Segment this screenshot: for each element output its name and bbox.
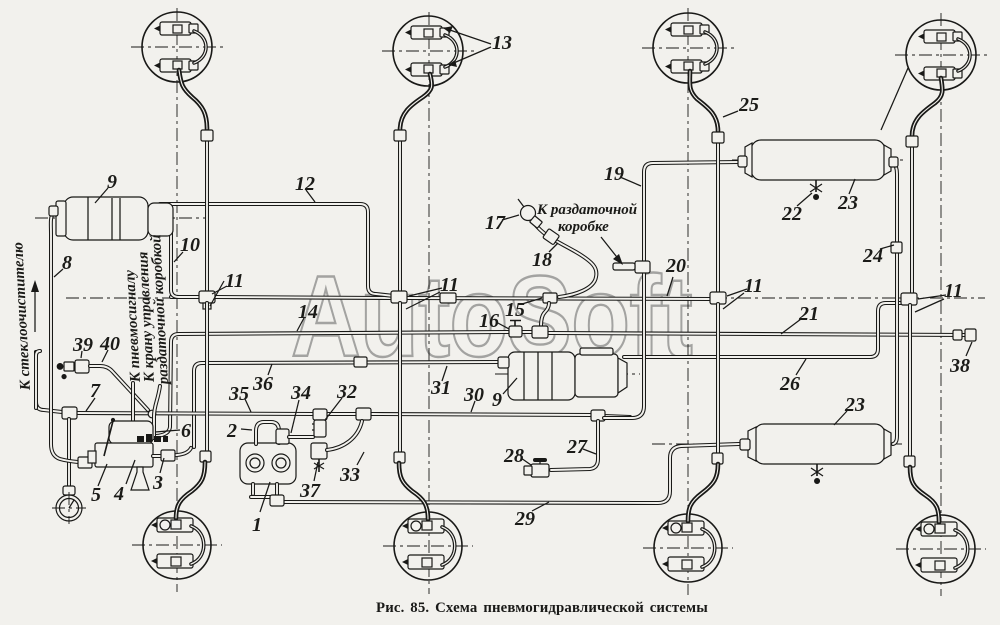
svg-text:27: 27	[566, 436, 588, 458]
coupling head 38 fitting	[953, 330, 962, 340]
hydraulic line 29 from master cylinder to bottom tank 23	[285, 444, 739, 503]
watermark AutoSoft	[291, 252, 692, 381]
pipe drop to axle line, wheel 4 (x=912)	[910, 147, 914, 293]
label 34	[291, 400, 299, 433]
label 14	[297, 318, 304, 331]
brake hose, bottom wheel 1	[176, 462, 205, 518]
valve lever	[104, 421, 113, 456]
svg-text:9: 9	[492, 389, 502, 411]
wheel track center line 2 (x=429)	[428, 12, 430, 594]
riser from fitting 15 down to tee on line B	[541, 303, 549, 326]
tee 11 at wheel 4	[901, 293, 917, 305]
svg-text:25: 25	[738, 94, 759, 116]
booster 9 axis	[495, 373, 640, 375]
coupling on wheel-4 pipe	[906, 136, 918, 147]
label 17	[502, 215, 519, 220]
label 23 (bottom tank)	[834, 411, 847, 425]
label 12	[306, 190, 315, 202]
label 4	[126, 460, 135, 484]
svg-text:35: 35	[228, 383, 249, 405]
wheel brake assembly, bottom axle 4	[907, 515, 975, 583]
svg-text:16: 16	[479, 310, 499, 332]
svg-text:2: 2	[226, 420, 237, 442]
label 40	[102, 350, 108, 362]
master brake cylinder 1	[240, 443, 296, 484]
tee under master cylinder	[270, 495, 284, 506]
wheel brake assembly, top axle 3	[653, 13, 723, 83]
svg-text:7: 7	[90, 380, 101, 402]
svg-text:12: 12	[295, 173, 315, 195]
coupling on line 20	[440, 293, 456, 303]
drain valve 39	[75, 360, 89, 373]
pipe 12 from reservoir 9 to wheel-2 tee	[160, 204, 394, 296]
svg-text:26: 26	[779, 373, 800, 395]
brake valve assembly (items 3-6)	[109, 421, 153, 444]
svg-text:15: 15	[505, 299, 525, 321]
pipe 18 riser: valve 17 to line A fitting	[534, 223, 596, 297]
label 35	[245, 399, 251, 412]
label 27	[583, 449, 596, 454]
coupling on line 5	[78, 457, 92, 468]
label 16	[496, 322, 509, 329]
label 22	[797, 193, 812, 206]
stub pipe to air horn (open end)	[133, 383, 140, 436]
stub pipe to transfer-case control valve (open end)	[154, 386, 160, 438]
drain funnel 4	[131, 467, 149, 490]
pipe wheel2 tee down to bottom wheel 2	[398, 303, 402, 452]
pipe to windscreen washer (vertical, open end)	[34, 350, 38, 354]
coupling on pipe 18	[543, 228, 560, 244]
label 3	[160, 458, 164, 473]
svg-text:40: 40	[99, 333, 120, 355]
air-hydraulic reservoir 9	[64, 197, 148, 240]
wheel track center line 3 (x=688)	[687, 8, 689, 595]
label 10	[174, 252, 183, 262]
label 39	[81, 351, 82, 358]
brake hose, top wheel 2	[400, 74, 432, 130]
coupling on pipe 24	[891, 242, 902, 253]
label 26	[796, 359, 806, 375]
svg-text:38: 38	[949, 355, 970, 377]
svg-text:23: 23	[844, 394, 865, 416]
label 23 (top tank)	[849, 179, 855, 194]
svg-text:18: 18	[532, 249, 552, 271]
pipe wheel3 tee down to bottom wheel 3	[716, 304, 720, 453]
label 30	[471, 401, 475, 412]
coupling on wheel-1 pipe	[201, 130, 213, 141]
label 2	[241, 429, 252, 430]
svg-text:9: 9	[107, 171, 117, 193]
svg-text:28: 28	[503, 445, 524, 467]
wheel brake assembly, top axle 4	[906, 20, 976, 90]
svg-text:29: 29	[514, 508, 535, 530]
wheel brake assembly, bottom axle 1	[143, 511, 211, 579]
svg-text:6: 6	[181, 420, 191, 442]
label 31	[442, 366, 447, 381]
valve outlet line 3 to line C riser	[153, 448, 191, 456]
air brake booster chamber 9 (center)	[508, 352, 575, 400]
svg-text:11: 11	[944, 280, 963, 302]
label 18	[549, 243, 558, 252]
svg-text:32: 32	[336, 381, 357, 403]
pipe 40 from valve 39 to brake valve lever joint	[90, 366, 148, 410]
tee 11 at wheel 2	[391, 291, 407, 303]
svg-text:1: 1	[252, 514, 262, 536]
fitting on bottom wheel-3 pipe	[712, 453, 723, 464]
svg-text:20: 20	[665, 255, 686, 277]
wheel brake assembly, bottom axle 3	[654, 514, 722, 582]
label 37	[314, 462, 318, 481]
label 36	[268, 364, 272, 375]
label 21	[781, 319, 801, 334]
svg-text:31: 31	[430, 377, 451, 399]
main long line 7/35/30 y=414	[36, 352, 62, 412]
brake hose, top wheel 3	[690, 71, 718, 131]
label 9 (reservoir)	[95, 188, 108, 203]
svg-text:37: 37	[299, 480, 321, 502]
svg-text:13: 13	[492, 32, 512, 54]
label 1	[260, 482, 270, 512]
windscreen-washer pipe w/ rounded top	[36, 351, 40, 408]
tee 30/27 fitting	[591, 410, 605, 421]
pipe 19 from line 30 up to air tank 23 top	[604, 162, 739, 418]
label 11 (wheel2 tee)	[409, 288, 442, 296]
label 6	[155, 430, 180, 432]
svg-text:К стеклоочистителю: К стеклоочистителю	[10, 242, 34, 392]
reservoir 9 axis	[35, 217, 205, 219]
svg-text:36: 36	[252, 373, 273, 395]
svg-text:21: 21	[798, 303, 819, 325]
svg-text:11: 11	[440, 274, 459, 296]
air line C (36/31) from brake valve to booster	[194, 362, 500, 447]
wheel brake assembly, front right shown top (axle 2)	[393, 16, 463, 86]
label 5	[98, 464, 107, 486]
label 28	[521, 458, 531, 465]
clamp on line 36	[354, 357, 367, 367]
brake hose, bottom wheel 4	[910, 467, 939, 522]
svg-text:Рис. 85. Схема пневмогидравл: Рис. 85. Схема пневмогидравлической сист…	[376, 600, 708, 616]
coupling on wheel-2 pipe	[394, 130, 406, 141]
bypass valve 32	[314, 420, 326, 437]
svg-text:17: 17	[485, 212, 506, 234]
drain valve on bottom tank	[816, 464, 818, 476]
pipe drop to axle line, wheel 1 (x=207)	[205, 140, 209, 292]
svg-text:8: 8	[62, 252, 72, 274]
label 33	[357, 452, 364, 465]
label 8	[54, 269, 63, 277]
svg-text:коробке: коробке	[558, 219, 609, 235]
label 20	[667, 277, 673, 296]
drain valve 28	[531, 464, 549, 477]
fitting 37 with drain	[311, 443, 327, 459]
arrow leader to transfer-case stub	[601, 237, 620, 261]
air tank 23 (bottom) axis	[652, 443, 902, 445]
fitting on bottom wheel-2 pipe	[394, 452, 405, 463]
curve 33 from fitting 37 to line 30 tee	[327, 421, 362, 450]
hydraulic line B (14-21) from brake valve to coupling head 38, y=333	[156, 332, 508, 436]
svg-text:39: 39	[72, 334, 93, 356]
front axle cross pipe (line 14/20) y=298	[171, 295, 207, 299]
pipe 10 reservoir 9 to tee 11 wheel 1	[166, 212, 199, 297]
label 15	[522, 298, 542, 304]
hydraulic line 26 from booster to rear tee, y=357	[624, 303, 901, 357]
wheel brake assembly, front left (top axle 1)	[142, 12, 212, 82]
svg-text:34: 34	[290, 382, 311, 404]
label 11 (wheel1 tee)	[212, 286, 227, 294]
svg-text:5: 5	[91, 484, 101, 506]
tee on line 7 with gauge drop	[62, 407, 77, 419]
brake hose, top wheel 4	[912, 78, 942, 136]
brake hose, top wheel 1	[179, 70, 207, 129]
air tank 23 (bottom right)	[754, 424, 885, 464]
svg-text:11: 11	[225, 270, 244, 292]
valve 32 tee fitting	[313, 409, 327, 420]
label 11 (wheel3 tee)	[727, 289, 747, 296]
fitting 15 on front line	[543, 293, 557, 303]
label 32	[325, 398, 342, 420]
pipe wheel1 tee down to bottom wheel 1	[205, 303, 209, 451]
tee 33 fitting on line 30	[356, 408, 371, 420]
gauge drop pipe	[67, 419, 71, 488]
pressure gauge	[63, 486, 75, 495]
label 24	[880, 245, 894, 249]
label 29	[532, 502, 549, 511]
label 13 with arrows to wheel-2 cylinders	[444, 28, 491, 44]
filler loop 2	[256, 422, 279, 444]
label 19	[620, 177, 641, 186]
fitting on bottom wheel-4 pipe	[904, 456, 915, 467]
svg-text:10: 10	[180, 234, 200, 256]
svg-text:14: 14	[298, 301, 318, 323]
label 38	[966, 342, 972, 356]
stray leader near wheel 4	[881, 68, 908, 130]
stub to transfer case on pipe 19	[635, 261, 650, 273]
air tank 23 (top right)	[751, 140, 885, 180]
label 7	[86, 398, 95, 411]
coupling on wheel-3 pipe 25	[712, 132, 724, 143]
arrow to windscreen wiper	[34, 287, 36, 332]
svg-text:23: 23	[837, 192, 858, 214]
svg-text:11: 11	[744, 275, 763, 297]
tee 11 at wheel 3	[710, 292, 726, 304]
label 11 (wheel4 tee)	[918, 295, 946, 299]
axle center line (horizontal, y=298)	[66, 297, 985, 299]
pipe drop to axle line, wheel 2 (x=400)	[398, 141, 402, 292]
brake hose, bottom wheel 2	[399, 463, 428, 519]
svg-text:22: 22	[781, 203, 802, 225]
pipe wheel4 tee down to bottom wheel 4	[908, 305, 912, 456]
pipe 25 drop to axle line, wheel 3 (x=718)	[716, 143, 720, 292]
wheel track center line 1 (x=177)	[176, 8, 178, 592]
label 9 (booster)	[503, 378, 517, 394]
pipe 24 from top tank 23 right cap down to bottom tank	[893, 162, 897, 444]
drain valve 22 on top tank	[815, 180, 817, 192]
svg-text:33: 33	[339, 464, 360, 486]
svg-text:30: 30	[463, 384, 484, 406]
brake hose, bottom wheel 3	[688, 464, 718, 521]
label 25	[723, 111, 738, 117]
svg-text:К раздаточной: К раздаточной	[536, 202, 637, 218]
wheel brake assembly, bottom axle 2	[394, 512, 462, 580]
pipe 8 from reservoir 9 left cap down to brake valve	[51, 213, 92, 462]
svg-text:19: 19	[604, 163, 624, 185]
pipe 27 from tee down to drain valve 28	[551, 421, 598, 470]
tee 15 on line B	[532, 326, 548, 338]
svg-text:24: 24	[862, 245, 883, 267]
shut-off valve 16	[509, 326, 522, 337]
tee 11 at wheel 1	[199, 291, 215, 303]
wheel track center line 4 (x=941)	[940, 13, 942, 596]
stubs below master cylinder	[251, 484, 255, 494]
pipe 34 master cylinder to valve 32	[289, 435, 313, 439]
air tank 23 (top) axis	[732, 159, 903, 161]
svg-text:3: 3	[152, 472, 163, 494]
fitting on bottom wheel-1 pipe	[200, 451, 211, 462]
control valve 17	[518, 199, 524, 207]
svg-text:4: 4	[113, 483, 124, 505]
